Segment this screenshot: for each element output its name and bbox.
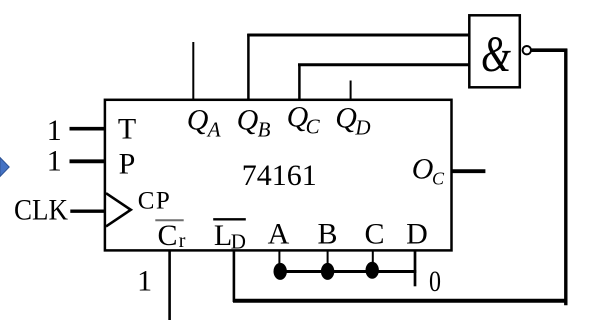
gate G1 NAND body [469,15,520,87]
svg-text:CLK: CLK [14,194,68,227]
svg-text:A: A [206,118,221,142]
svg-text:C: C [157,219,177,252]
wire G1 output [531,48,567,52]
svg-text:74161: 74161 [242,159,317,192]
svg-text:B: B [317,218,337,251]
svg-text:CP: CP [138,188,172,215]
clock edge triangle [106,193,131,226]
svg-text:&: & [481,26,512,83]
svg-text:Q: Q [187,104,209,137]
svg-text:C: C [432,169,445,189]
svg-text:Q: Q [237,104,259,137]
wire B stub [327,251,329,266]
svg-text:r: r [179,230,186,252]
wire QC vertical [298,64,301,100]
wire P pin [70,159,106,163]
wire O_C pin [452,169,485,173]
wire T pin [70,127,106,131]
pin label OC [412,152,445,188]
wire feedback vertical [564,49,567,306]
wire A stub [278,251,280,266]
pin label QC [287,101,321,139]
svg-text:0: 0 [429,264,441,297]
svg-text:D: D [354,116,370,140]
junction dot B [321,263,334,280]
svg-text:P: P [119,148,136,181]
wire CLK pin [70,209,105,212]
wire C stub [372,251,374,264]
svg-text:1: 1 [47,114,62,147]
wire QC to gate G1 [298,63,469,66]
svg-text:Q: Q [335,102,357,135]
pin label QA [187,104,221,142]
wire feedback bottom [233,299,567,303]
svg-text:A: A [268,218,290,251]
svg-text:D: D [406,218,428,251]
pin label LD (active-low) [213,219,246,254]
svg-text:D: D [231,230,246,254]
svg-text:C: C [306,115,321,139]
wire QA stub [192,42,194,100]
svg-text:L: L [214,219,232,252]
pin label QB [237,104,271,142]
wire LD vertical [233,251,236,302]
wire Cr vertical [168,251,171,320]
pin label QD [335,102,370,140]
wire QB to gate G1 [247,34,469,37]
gate G1 output bubble [523,46,531,54]
IC U1 74161 body [105,100,452,251]
svg-text:O: O [412,152,434,185]
svg-text:B: B [258,118,271,142]
wire QB vertical [247,34,250,100]
svg-text:C: C [364,218,384,251]
wire D vertical [414,251,417,286]
junction dot A [274,263,287,280]
svg-text:1: 1 [137,265,152,298]
junction dot C [366,262,379,279]
blue slide-edge arrow [0,158,9,177]
wire QD stub [350,81,352,101]
pin label Cr (active-low) [155,219,186,252]
wire data bus to 0 [279,270,416,273]
svg-text:T: T [118,113,136,146]
svg-text:1: 1 [47,144,62,177]
